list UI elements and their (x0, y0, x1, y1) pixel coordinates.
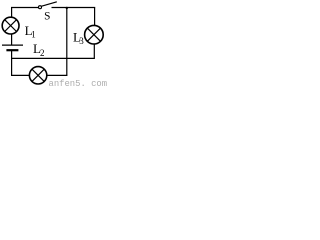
wire: bottom right segment (47, 74, 68, 76)
battery short plate (6, 49, 18, 51)
lamp L2 (29, 67, 46, 84)
svg-text:3: 3 (79, 36, 84, 46)
wire: L1 bottom stem to battery (11, 34, 13, 46)
svg-text:2: 2 (40, 48, 45, 58)
wire: top right segment (52, 7, 96, 9)
lamp L1 (2, 17, 19, 34)
switch S contact (39, 6, 42, 9)
wire: L1 top stem (11, 8, 13, 18)
lamp L3 (85, 25, 104, 44)
wire: middle vertical rail (66, 8, 68, 76)
svg-text:S: S (44, 10, 50, 22)
background (0, 0, 109, 88)
switch S blade (42, 2, 57, 6)
junction dot top T (66, 7, 68, 9)
svg-text:anfen5. com: anfen5. com (49, 79, 108, 88)
wire: middle horizontal (12, 57, 95, 59)
wire: L3 bottom stem (93, 44, 95, 59)
battery long plate (2, 44, 23, 46)
wire: right rail down to L3 (94, 8, 96, 26)
svg-text:1: 1 (31, 29, 36, 39)
wire: top left segment (11, 7, 39, 9)
wire: bottom left segment (11, 74, 30, 76)
wire: left rail below battery (11, 50, 13, 75)
